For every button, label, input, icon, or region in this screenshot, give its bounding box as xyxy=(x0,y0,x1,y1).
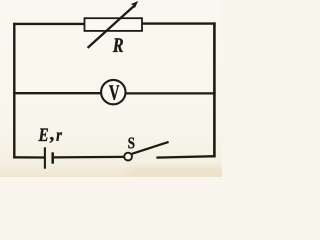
wire: bottom rail right segment xyxy=(156,156,215,157)
switch S contact circle xyxy=(124,153,132,161)
arrowhead of variable-resistor arrow xyxy=(131,1,139,8)
wire: left vertical (node between top, middle, bottom rails) xyxy=(13,23,15,158)
switch S lever (open) xyxy=(132,142,169,154)
label S (switch) xyxy=(128,137,134,148)
wire: middle rail right segment xyxy=(126,92,216,94)
battery E,r long plate xyxy=(44,147,46,168)
label comma in E,r xyxy=(50,137,54,143)
scan tint bottom-right xyxy=(128,166,222,177)
wire: bottom rail middle segment xyxy=(54,156,124,159)
wire: arrow through resistor (variable) xyxy=(88,6,135,48)
voltmeter U1 circle xyxy=(101,80,125,104)
battery E,r short plate xyxy=(51,152,54,163)
label V (voltmeter) xyxy=(109,85,119,100)
label R (resistor) xyxy=(113,38,123,51)
wire: bottom rail left segment xyxy=(13,156,44,158)
wire: top rail right segment xyxy=(142,22,216,24)
wire: top rail left segment xyxy=(13,23,85,25)
wire: middle rail left segment xyxy=(13,92,100,94)
label r (internal resistance) xyxy=(56,132,62,140)
label E (battery emf) xyxy=(38,129,48,141)
wire: right vertical xyxy=(213,22,216,157)
paper background xyxy=(0,0,222,177)
resistor R (variable, box) xyxy=(85,18,143,31)
